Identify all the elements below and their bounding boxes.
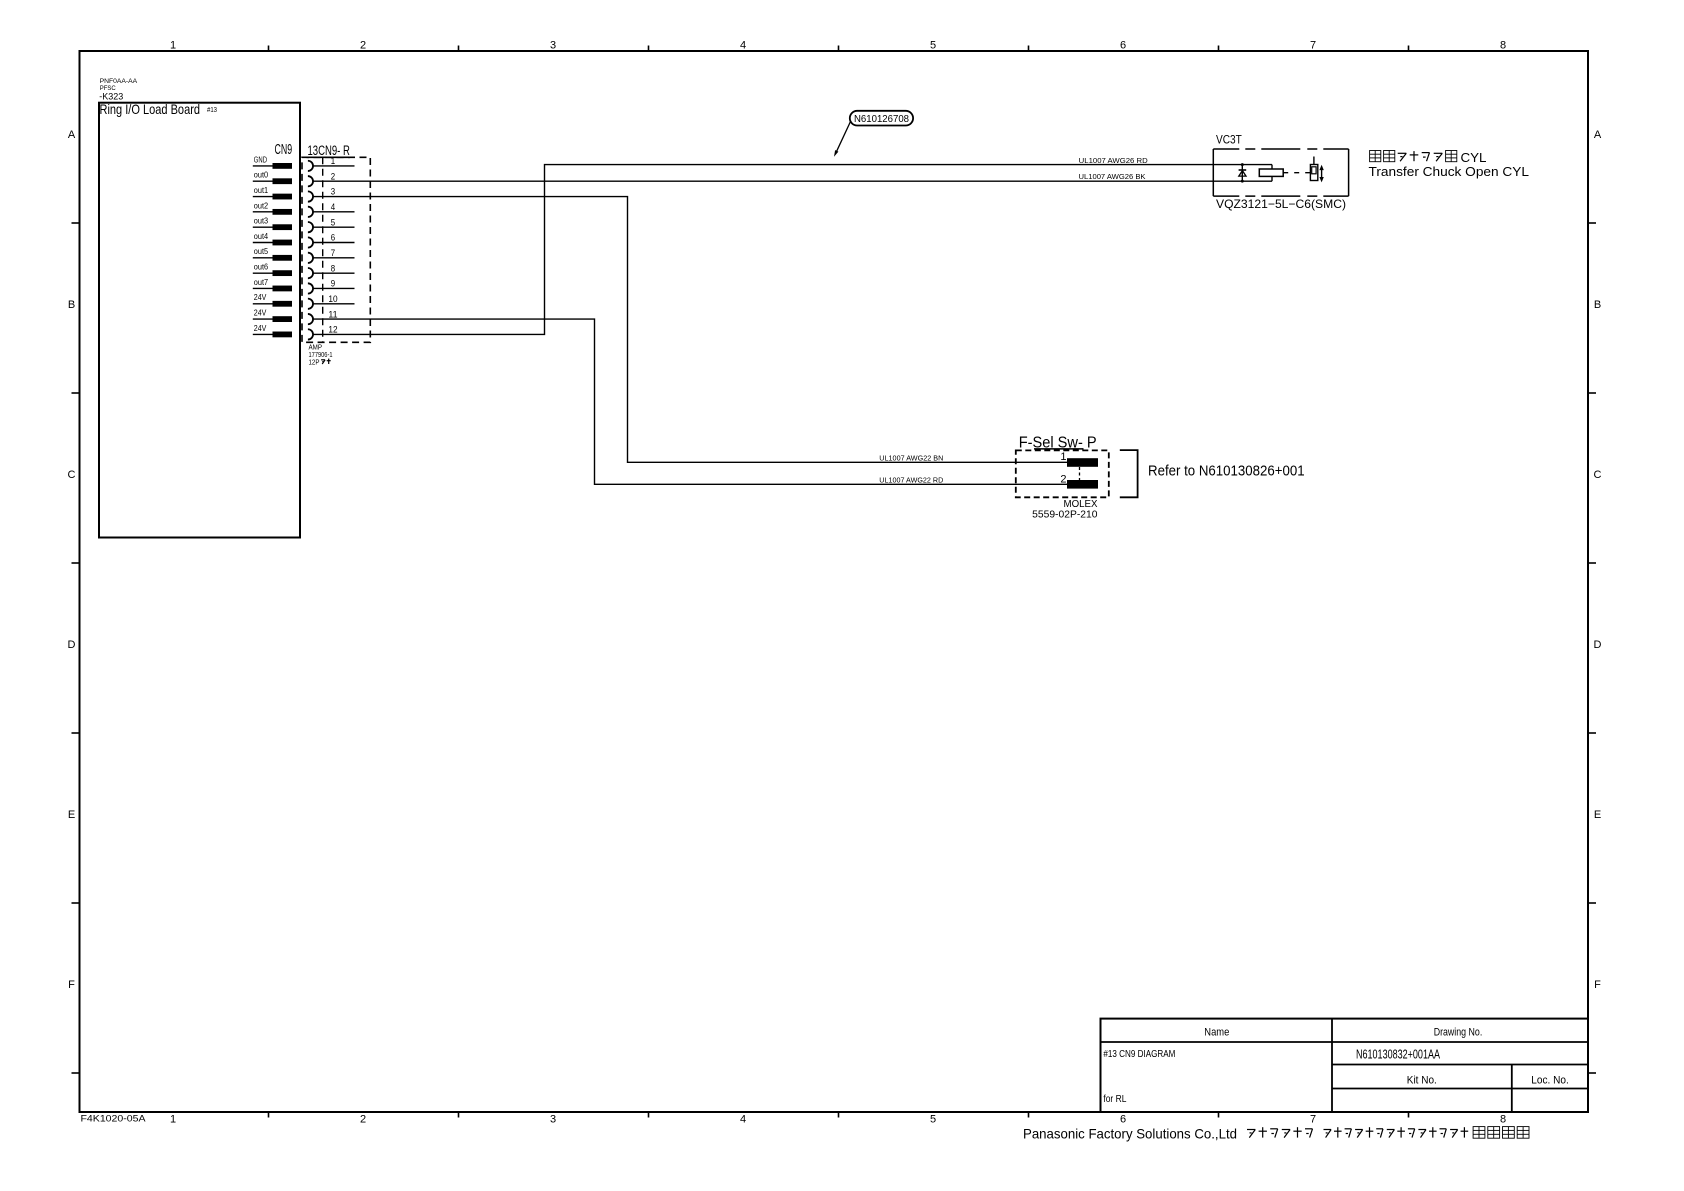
CN9 pin 8 (out6) [253,263,355,279]
svg-text:3: 3 [550,40,556,52]
svg-text:UL1007 AWG26 RD: UL1007 AWG26 RD [1079,156,1149,165]
svg-text:out3: out3 [254,217,269,226]
svg-text:N610126708: N610126708 [854,113,909,125]
svg-text:C: C [1594,469,1602,481]
svg-text:1: 1 [170,40,176,52]
CN9 pin 10 (24V) [253,293,355,309]
svg-text:2: 2 [360,40,366,52]
svg-text:3: 3 [550,1114,556,1126]
svg-text:out6: out6 [254,263,269,272]
svg-text:5: 5 [930,40,936,52]
board: Ring I/O Load Board #13 [99,103,300,538]
solenoid valve VC3T outline [1212,149,1214,196]
svg-text:PNF0AA-AA: PNF0AA-AA [100,78,138,85]
svg-text:Panasonic Factory Solutions Co: Panasonic Factory Solutions Co.,Ltd [1023,1126,1237,1142]
dashed link coil to actuator [1283,172,1310,174]
svg-text:B: B [68,299,75,311]
svg-text:CN9: CN9 [275,141,293,158]
actuator motion double arrow [1321,168,1323,180]
svg-text:13CN9- R: 13CN9- R [308,143,351,158]
svg-text:24V: 24V [254,309,267,318]
reference bracket [1120,450,1138,497]
svg-text:CYL: CYL [1461,150,1487,165]
wire: CN9 pin2 (out0) to valve VC3T (-) [313,180,1272,182]
svg-text:24V: 24V [254,324,267,333]
13CN9-R mating face dashed line [322,157,324,342]
svg-text:UL1007 AWG22 BN: UL1007 AWG22 BN [879,453,943,462]
svg-text:8: 8 [331,263,335,274]
svg-text:UL1007 AWG22 RD: UL1007 AWG22 RD [879,476,944,485]
svg-text:8: 8 [1500,40,1506,52]
svg-text:E: E [1594,809,1601,821]
title block [1101,1019,1589,1112]
CN9 pin 5 (out3) [253,217,355,233]
svg-text:5559-02P-210: 5559-02P-210 [1032,508,1097,520]
svg-text:5: 5 [331,217,335,228]
svg-text:A: A [68,129,76,141]
F-Sel mating face dashed line [1079,467,1081,480]
svg-text:#13: #13 [207,105,217,114]
svg-text:C: C [68,469,76,481]
svg-text:VC3T: VC3T [1216,133,1242,147]
svg-text:#13 CN9 DIAGRAM: #13 CN9 DIAGRAM [1103,1048,1175,1060]
svg-text:D: D [1594,639,1602,651]
flyback diode across coil [1241,165,1243,182]
CN9 pin 12 (24V) [253,324,338,340]
svg-text:out7: out7 [254,278,269,287]
svg-text:Kit No.: Kit No. [1407,1074,1437,1086]
svg-text:Drawing No.: Drawing No. [1434,1026,1483,1038]
svg-text:4: 4 [740,1114,746,1126]
svg-text:out0: out0 [254,171,269,180]
svg-text:UL1007 AWG26 BK: UL1007 AWG26 BK [1079,172,1146,181]
svg-text:N610130832+001AA: N610130832+001AA [1356,1047,1440,1061]
svg-text:8: 8 [1500,1114,1506,1126]
valve function label (JP) 移載チャック開CYL [1370,151,1381,162]
svg-text:2: 2 [360,1114,366,1126]
manual override actuator [1313,157,1315,165]
CN9 pin 11 (24V) [253,309,338,325]
svg-text:1: 1 [1060,451,1066,463]
svg-text:Ring I/O Load Board: Ring I/O Load Board [100,101,201,117]
svg-text:out4: out4 [254,232,269,241]
svg-text:9: 9 [331,279,335,290]
svg-text:F4K1020-05A: F4K1020-05A [81,1114,146,1124]
svg-text:out2: out2 [254,201,269,210]
svg-text:1: 1 [170,1114,176,1126]
svg-text:7: 7 [1310,1114,1316,1126]
connector F-Sel Sw-P housing (dashed) [1016,450,1109,497]
svg-text:12P: 12P [309,358,320,367]
svg-text:6: 6 [1120,40,1126,52]
svg-text:2: 2 [1060,473,1066,485]
svg-text:10: 10 [328,294,337,305]
valve coil loop wires [1271,165,1273,169]
svg-text:Transfer Chuck Open CYL: Transfer Chuck Open CYL [1369,164,1530,179]
CN9 pin 2 (out0) [253,171,335,187]
svg-text:F: F [1594,979,1601,991]
svg-text:E: E [68,809,75,821]
svg-text:Loc. No.: Loc. No. [1531,1074,1569,1086]
svg-text:7: 7 [331,248,335,259]
svg-text:Name: Name [1204,1026,1229,1038]
connector 13CN9-R housing (dashed) [302,157,370,342]
svg-text:D: D [68,639,76,651]
svg-text:GND: GND [254,155,267,164]
solenoid coil [1259,169,1283,176]
CN9 pin 1 (GND) [253,155,355,171]
svg-text:6: 6 [1120,1114,1126,1126]
svg-text:24V: 24V [254,293,267,302]
svg-text:7: 7 [1310,40,1316,52]
CN9 pin 3 (out1) [253,186,335,202]
balloon label N610126708 (cable part no.) [850,111,913,126]
wire: CN9 pin11 (24V) to F-Sel Sw-P pin2 [313,319,1067,484]
svg-text:4: 4 [331,202,335,213]
CN9 pin 4 (out2) [253,201,355,217]
svg-text:out1: out1 [254,186,269,195]
svg-text:A: A [1594,129,1602,141]
svg-text:out5: out5 [254,247,269,256]
CN9 pin 9 (out7) [253,278,355,294]
CN9 pin 6 (out4) [253,232,355,248]
svg-text:Refer to N610130826+001: Refer to N610130826+001 [1148,463,1305,479]
svg-text:for RL: for RL [1103,1093,1126,1105]
wire: CN9 pin12 (24V) to valve VC3T (+) [313,165,1272,335]
svg-text:5: 5 [930,1114,936,1126]
CN9 pin 7 (out5) [253,247,355,263]
leader arrow from balloon to wire [836,122,850,153]
svg-text:4: 4 [740,40,746,52]
svg-text:B: B [1594,299,1601,311]
svg-text:F: F [68,979,75,991]
svg-text:VQZ3121−5L−C6(SMC): VQZ3121−5L−C6(SMC) [1216,197,1346,211]
svg-text:6: 6 [331,233,335,244]
wire: CN9 pin3 (out1) to F-Sel Sw-P pin1 [313,197,1067,463]
